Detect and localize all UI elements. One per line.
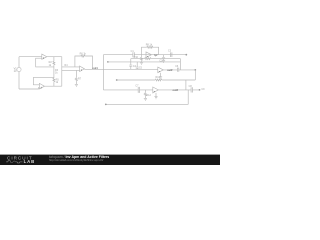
resistor R7 (to ground) (75, 78, 77, 82)
resistor R11 (row3 feedback) (155, 79, 162, 81)
wire: OA2 feedback loop (33, 77, 54, 84)
svg-text:1V: 1V (14, 70, 17, 73)
wire: row2 feedback right vertical (179, 59, 181, 70)
node dot row1 end (185, 54, 187, 56)
svg-text:out1: out1 (92, 66, 98, 70)
wire: row2 feedback top (net A) (131, 58, 181, 60)
capacitor C8 (row3 series output) (191, 87, 192, 92)
wire: row2 cap branch x130.8 (130, 59, 132, 70)
svg-text:out3: out3 (173, 88, 179, 92)
logo waveform squiggle (6, 161, 23, 163)
capacitor C5 (row2 branch) (136, 67, 139, 68)
resistor R10 (row2 feedback) (145, 58, 152, 60)
resistor R6 (OA3 feedback) (81, 55, 85, 57)
node dot y80 net left (116, 79, 118, 81)
ground (row1) (140, 62, 143, 64)
resistor R12 (row3 to ground) (144, 93, 146, 97)
footer black bar (0, 155, 220, 165)
wire: bottom loop horizontal to OA2 input (19, 88, 39, 89)
svg-text:LAB: LAB (24, 159, 36, 164)
wire: OA3 feedback loop (75, 56, 93, 69)
node dot bottom loop (105, 104, 107, 106)
resistor R5 (feedback of OA2, in column) (53, 78, 55, 82)
op-amp OA2 (39, 83, 44, 89)
op-amp OA4 (row1) (146, 52, 152, 58)
wire: row2 cap branch x137.2 (136, 62, 138, 69)
wire: row2 net B horizontal (108, 61, 180, 63)
capacitor C7 (row3 series input) (138, 87, 139, 93)
wire: OA2 output (45, 85, 62, 87)
op-amp OA3 (80, 66, 85, 72)
wire: left outer loop vertical (18, 57, 20, 89)
ground (OA3) (75, 84, 78, 86)
resistor R9 (row1 to ground) (141, 57, 143, 61)
capacitor C6 (row2 series output) (177, 68, 178, 72)
wire: OA3 inverting input (62, 66, 80, 68)
op-amp OA6 (row3) (153, 87, 159, 93)
svg-text:R8 1k: R8 1k (146, 43, 153, 46)
wire: column x61.2 (61, 57, 63, 86)
voltage source V1 (17, 67, 21, 71)
wire: OA3 non-inverting input (62, 69, 80, 71)
node dot row2 end (194, 69, 196, 71)
wire: row1 feedback loop (142, 47, 159, 55)
ground (row1 cap) (162, 60, 165, 62)
capacitor C1 (row1 series input) (133, 52, 134, 57)
wire: row3 main line (103, 89, 152, 91)
wire: vertical from y80 loop up to row2 output (194, 70, 196, 80)
wire: OA6 ground stub (155, 93, 157, 97)
ground (OA5) (159, 77, 162, 79)
node dot row2 net B (107, 61, 109, 63)
wire: OA1 feedback down-left (36, 58, 54, 67)
wire: bottom loop right vertical (187, 90, 189, 105)
wire: OA3 output (84, 68, 157, 70)
svg-text:out2: out2 (167, 68, 173, 72)
svg-text:R10: R10 (134, 56, 139, 59)
op-amp OA1 (42, 54, 47, 59)
svg-text:lpf: lpf (154, 53, 157, 57)
wire: row1 output cap branch (163, 55, 165, 61)
wire: OA5 ground stub (160, 73, 162, 77)
wire: OA1 output (47, 56, 62, 58)
svg-text:R12: R12 (146, 94, 151, 97)
resistor R2 (zigzag in column) (53, 61, 55, 65)
wire: row1 main line (103, 54, 186, 56)
wire: vertical from y80 loop down to row3 line (185, 80, 187, 90)
wire: top loop horizontal to OA1 input (19, 56, 42, 58)
capacitor C4 (row2 branch) (129, 65, 132, 66)
resistor R8 (row1 feedback) (147, 46, 153, 48)
wire: row3 bottom loop y104.4 (106, 103, 188, 105)
ground (row3 branch) (144, 98, 147, 100)
wire: row2 output (163, 69, 195, 71)
capacitor C2 (row1 to ground) (162, 58, 165, 59)
capacitor C3 (row1 series output) (171, 52, 172, 57)
wire: shared lower loop y80 (117, 79, 196, 81)
wire: row3 ground branch x145.4 (144, 90, 146, 98)
node dot row3 end (199, 89, 201, 91)
svg-text:http://circuitlab.com/c/26kv2y: http://circuitlab.com/c/26kv2y3kz9/inv-a… (49, 158, 103, 162)
wire: resistor column x53.9 (53, 57, 55, 86)
wire: interconnect vertical x103.4 (102, 55, 104, 90)
wire: row1 ground branch (141, 55, 143, 63)
svg-text:R6 1k: R6 1k (80, 52, 87, 55)
wire: OA3 ground branch (75, 70, 77, 84)
wire: row3 output (158, 89, 199, 91)
ground (OA6) (154, 97, 157, 99)
svg-text:R11: R11 (156, 76, 161, 79)
op-amp OA5 (row2) (158, 67, 164, 73)
